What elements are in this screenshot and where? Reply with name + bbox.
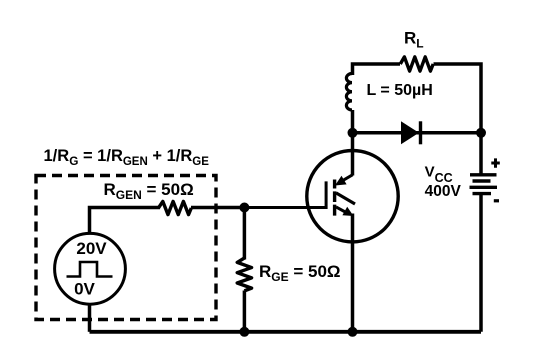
wire source top to RGEN	[90, 208, 161, 235]
diode D1 triangle	[401, 121, 419, 144]
pulse source V1 circle	[55, 233, 126, 304]
wire RL to right rail	[434, 64, 482, 177]
transistor Q1 circle	[307, 151, 398, 242]
node dot gate	[239, 203, 249, 213]
inductor L coil arcs	[346, 74, 352, 110]
node dot diode right	[476, 128, 486, 138]
top wire and corner to RL	[353, 64, 401, 75]
node dot emitter bottom	[348, 327, 358, 337]
svg-text:RGE = 50Ω: RGE = 50Ω	[259, 262, 341, 284]
svg-text:400V: 400V	[425, 183, 462, 200]
diode D1 cathode bar	[419, 121, 422, 144]
wire inductor to diode node	[351, 110, 355, 133]
dashed box around gate drive network	[36, 176, 216, 320]
svg-text:VCC: VCC	[425, 164, 453, 185]
battery VCC plates	[470, 175, 498, 194]
wire battery to ground rail	[479, 194, 483, 332]
resistor RGE zigzag	[237, 258, 251, 291]
svg-text:RGEN = 50Ω: RGEN = 50Ω	[104, 180, 194, 202]
svg-text:20V: 20V	[76, 239, 107, 258]
svg-text:L = 50µH: L = 50µH	[367, 82, 433, 99]
resistor RGEN zigzag	[158, 201, 191, 214]
transistor collector wire from diode node	[351, 133, 355, 176]
wire source bottom to ground rail	[88, 304, 92, 332]
wire RGEN to gate node	[191, 206, 244, 210]
transistor channel bar segments	[333, 180, 336, 216]
resistor RL zigzag	[400, 57, 433, 71]
wire gate lead into transistor	[244, 181, 326, 207]
svg-text:RL: RL	[404, 29, 424, 51]
wire diode branch	[353, 131, 482, 135]
transistor body middle line	[336, 193, 355, 204]
svg-text:0V: 0V	[74, 280, 95, 299]
svg-text:1/RG = 1/RGEN + 1/RGE: 1/RG = 1/RGEN + 1/RGE	[44, 147, 210, 168]
plus sign	[491, 158, 500, 167]
node dot RGE bottom	[239, 327, 249, 337]
node dot inductor/diode	[348, 128, 358, 138]
minus sign	[494, 199, 499, 202]
bottom ground rail wire	[90, 330, 482, 334]
transistor emitter angled line with arrow	[336, 207, 348, 214]
transistor collector angled line with arrow	[340, 175, 353, 183]
pulse waveform symbol	[67, 262, 113, 277]
transistor emitter wire to ground rail	[351, 214, 355, 332]
wire gate node down to RGE	[243, 208, 247, 260]
wire RGE to ground rail	[243, 291, 247, 332]
